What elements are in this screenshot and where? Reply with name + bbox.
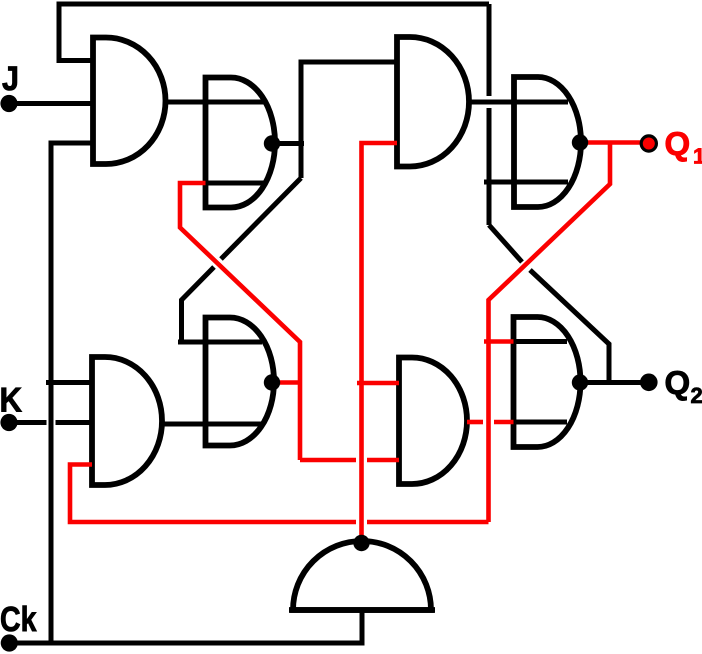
svg-text:Q: Q [665,125,691,162]
svg-text:Ck: Ck [0,600,37,639]
svg-text:Q: Q [665,364,691,401]
svg-text:1: 1 [693,144,702,169]
svg-text:K: K [0,382,22,420]
svg-text:J: J [2,60,19,98]
svg-text:2: 2 [691,383,702,408]
